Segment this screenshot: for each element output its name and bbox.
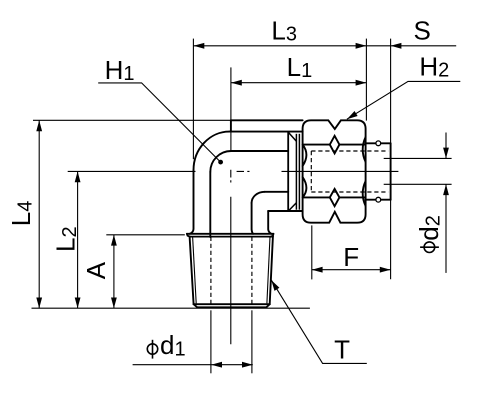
extension and dimension lines <box>32 39 461 374</box>
label phi-d1 <box>147 330 185 360</box>
taper thread right crest <box>270 237 273 305</box>
leader H1 dot <box>218 160 223 165</box>
wire inner bend arc <box>210 151 231 172</box>
tube end face <box>390 143 392 199</box>
taper thread left root <box>193 237 197 304</box>
leader H1 <box>98 83 220 162</box>
taper thread bottom chamfer <box>194 304 270 307</box>
arrow L3 left <box>194 43 205 49</box>
arrow phi-d1 left <box>211 362 222 368</box>
wire fillet bottom line <box>265 191 289 193</box>
dim line phi-d1 <box>133 364 253 366</box>
label phi-d2 (rotated) <box>414 215 444 252</box>
nut bore dashed left <box>310 151 312 192</box>
ext S right / tube face extension <box>390 39 392 280</box>
taper thread bottom edge <box>194 303 270 305</box>
elbow body outline <box>187 120 303 307</box>
ext F left <box>311 225 313 279</box>
arrow L4 top <box>36 120 42 131</box>
dim line S tail <box>391 45 457 47</box>
nut chamfer arc right upper <box>363 137 366 162</box>
nut bore dashed top <box>311 150 388 152</box>
dim line A <box>113 235 115 308</box>
hidden thread lines (dashed) <box>211 151 389 304</box>
wire interface thread line 2 <box>298 134 300 210</box>
tube bead circle upper <box>376 141 381 146</box>
nut outline <box>303 120 366 222</box>
dim line L3 <box>194 45 391 47</box>
taper thread left crest <box>190 237 194 305</box>
wire inner horizontal line <box>231 150 288 152</box>
centerline vertical <box>230 170 232 344</box>
dim line L4 <box>38 120 40 308</box>
arrow phi-d2 bottom <box>443 184 449 195</box>
dim line L2 <box>77 171 79 308</box>
arrow F left <box>312 267 323 273</box>
tube stub <box>366 143 391 199</box>
wire inner corner fillet <box>252 192 265 203</box>
tube top edge <box>366 142 391 144</box>
taper bore dashed left <box>210 237 212 304</box>
nut chamfer arc left lower <box>303 177 307 197</box>
arrow S <box>391 43 402 49</box>
nut face boundary upper <box>303 144 365 146</box>
svg-text:A: A <box>81 261 111 279</box>
dim line phi-d2 lower <box>445 184 447 273</box>
wire interface left edge <box>287 132 289 211</box>
shoulder <box>187 233 274 235</box>
ext top edge left (L4) <box>33 119 231 121</box>
arrow L2 top <box>75 171 81 182</box>
arrow F right <box>380 267 391 273</box>
wire neck top line <box>229 131 302 133</box>
arrowheads <box>36 43 449 368</box>
nut bore dashed bottom <box>311 191 388 193</box>
tube bead circle lower <box>376 197 381 202</box>
nut U1 <box>303 120 366 222</box>
arrow L2 bottom <box>75 298 81 309</box>
ext L3 left <box>192 39 194 160</box>
ext centerline left (L2) <box>68 170 196 172</box>
arrow phi-d1 right <box>242 362 253 368</box>
wire interface thread line 1 <box>295 134 297 210</box>
leader H2 <box>347 81 460 119</box>
nut diamond lower <box>330 189 340 206</box>
ext phi-d2 upper <box>384 157 452 159</box>
wire lower step line <box>268 210 302 212</box>
arrow L4 bottom <box>36 298 42 309</box>
dim line L1 <box>231 82 367 84</box>
arrow T leader <box>271 280 279 291</box>
ext phi-d1 right <box>251 310 253 373</box>
arrow A bottom <box>111 298 117 309</box>
wire interface top chamfer <box>288 132 296 141</box>
tube bottom edge <box>366 199 391 201</box>
ext L1 left <box>230 67 232 150</box>
ext phi-d1 left <box>210 310 212 373</box>
leader T <box>271 280 367 363</box>
arrow L1 right <box>356 80 367 86</box>
threaded interface between body and nut <box>288 132 299 211</box>
wire fillet vertical edge <box>252 203 253 234</box>
ext phi-d2 lower <box>384 183 452 185</box>
dim line F <box>312 269 391 271</box>
arrow phi-d2 top <box>443 148 449 159</box>
nut face boundary lower <box>303 196 365 198</box>
centerline horizontal <box>237 170 399 172</box>
nut chamfer arc right lower <box>363 181 366 206</box>
nut chamfer arc left upper <box>303 145 307 166</box>
wire interface bottom chamfer <box>289 203 297 211</box>
taper thread right root <box>267 237 270 304</box>
taper bore dashed right <box>251 237 253 304</box>
wire lower step edge <box>268 211 271 234</box>
wire outer bend arc <box>194 132 230 171</box>
svg-text:S: S <box>414 16 431 46</box>
ext L3/L1 right <box>365 39 367 121</box>
svg-text:F: F <box>343 242 359 272</box>
arrow A top <box>111 235 117 246</box>
wire body step left face <box>230 120 232 131</box>
wire inner vertical line <box>209 172 211 237</box>
arrow L1 left <box>231 80 242 86</box>
ext bottom reference <box>32 307 310 309</box>
arrow L3 right <box>356 43 367 49</box>
svg-text:T: T <box>334 335 350 365</box>
nut diamond upper <box>330 136 340 154</box>
wire left edge of vertical arm <box>190 170 194 234</box>
ext shoulder left (A) <box>106 234 185 236</box>
wire top edge of body <box>231 119 303 121</box>
arrow H2 leader <box>347 111 358 119</box>
dim line phi-d2 upper <box>445 133 447 159</box>
taper thread top line <box>190 236 273 238</box>
